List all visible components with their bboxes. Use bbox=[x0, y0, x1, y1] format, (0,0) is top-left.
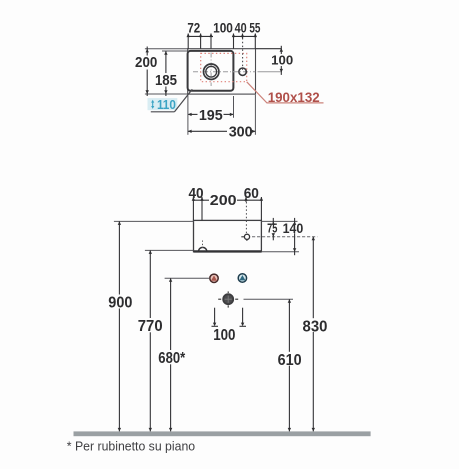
svg-text:830: 830 bbox=[303, 319, 328, 336]
faucet dotted vertical line bbox=[242, 38, 244, 71]
extension 900 bbox=[114, 220, 194, 222]
label 40 top bbox=[235, 21, 247, 36]
dimension 200 (left) bbox=[135, 47, 157, 97]
svg-text:200: 200 bbox=[135, 55, 157, 71]
dimension 680* bbox=[158, 278, 186, 431]
label 55 top bbox=[249, 21, 260, 36]
extension 75/140 top bbox=[261, 220, 297, 222]
extension 680 bbox=[165, 277, 210, 279]
top dimension line bbox=[188, 35, 255, 37]
110 note highlight box bbox=[148, 98, 178, 110]
dotted line above dome bbox=[202, 241, 204, 249]
svg-text:40: 40 bbox=[235, 21, 247, 36]
red leader 190x132 bbox=[247, 82, 324, 103]
dimension 100 (right) bbox=[271, 46, 293, 75]
extension vertical 300 right bbox=[254, 95, 256, 135]
dimension 830 bbox=[303, 237, 328, 432]
svg-text:900: 900 bbox=[108, 294, 132, 311]
dimension 195 (bottom) bbox=[188, 108, 234, 124]
label 60 front bbox=[244, 185, 259, 202]
svg-text:300: 300 bbox=[229, 125, 253, 141]
floor bar bbox=[74, 431, 371, 436]
svg-text:200: 200 bbox=[210, 193, 237, 209]
svg-text:185: 185 bbox=[155, 73, 177, 89]
svg-text:100: 100 bbox=[213, 327, 235, 344]
svg-text:100: 100 bbox=[213, 21, 233, 36]
centerline horizontal (dash-dot) bbox=[193, 71, 255, 73]
110 text bbox=[157, 97, 176, 112]
faucet hole circle bbox=[239, 68, 246, 75]
front rect bbox=[194, 220, 262, 251]
extension vertical 195 right bbox=[233, 96, 235, 118]
centerline vertical through drain bbox=[210, 53, 212, 87]
drain dome bbox=[198, 247, 207, 251]
tick 72 end bbox=[199, 33, 202, 48]
svg-text:* Per rubinetto su piano: * Per rubinetto su piano bbox=[67, 440, 195, 454]
label 100 top bbox=[213, 21, 233, 36]
tick bowl right edge bbox=[232, 33, 235, 48]
cold water supply (blue circle with triangle) bbox=[238, 274, 246, 282]
label 40 front bbox=[188, 185, 203, 202]
svg-text:100: 100 bbox=[271, 53, 293, 68]
svg-text:75: 75 bbox=[267, 220, 277, 235]
label 200 front bbox=[210, 193, 237, 209]
front tick right edge bbox=[260, 197, 263, 221]
extension vertical left (195/300) bbox=[187, 96, 189, 135]
svg-text:610: 610 bbox=[278, 352, 302, 369]
110 arrow glyph bbox=[151, 100, 154, 109]
dimension 185 (left inner) bbox=[155, 51, 177, 96]
tick at basin left edge bbox=[187, 33, 190, 48]
extension 770 bbox=[145, 249, 194, 251]
tick faucet center bbox=[241, 33, 244, 38]
dimension 770 bbox=[138, 250, 163, 431]
svg-text:72: 72 bbox=[187, 21, 200, 36]
svg-text:770: 770 bbox=[138, 318, 163, 335]
basin bowl rounded rect 195x185 bbox=[188, 51, 234, 91]
extension line bowl-top (185) bbox=[162, 50, 189, 52]
tick drain center bbox=[209, 33, 212, 48]
svg-text:110: 110 bbox=[157, 97, 176, 112]
dimension 900 bbox=[108, 221, 132, 431]
extension right top (100) bbox=[256, 48, 282, 50]
basin outer rect 300x200 bbox=[188, 49, 256, 94]
red dotted rect 190x132 bbox=[201, 53, 247, 81]
front tick faucet (dotted below) bbox=[244, 197, 247, 233]
tick basin right edge bbox=[254, 33, 257, 48]
footnote bbox=[67, 440, 195, 454]
dimension 140 bbox=[283, 218, 304, 255]
faucet cross (dashed circle) bbox=[241, 234, 249, 242]
dimension 75 bbox=[267, 218, 277, 240]
front tick 40 bbox=[200, 197, 203, 221]
extension line top-left (200) bbox=[145, 48, 189, 50]
svg-text:680*: 680* bbox=[158, 350, 186, 367]
svg-text:140: 140 bbox=[283, 220, 304, 236]
svg-text:60: 60 bbox=[244, 185, 259, 202]
dimension 610 bbox=[278, 299, 302, 431]
front bottom thick edge bbox=[194, 250, 262, 252]
front tick left edge bbox=[192, 197, 195, 221]
red label 190x132 bbox=[268, 89, 320, 105]
label 72 bbox=[187, 21, 200, 36]
extension 140 bottom bbox=[261, 251, 299, 253]
extension right at faucet height bbox=[258, 71, 281, 73]
svg-text:40: 40 bbox=[188, 185, 203, 202]
dimension 100 (between supplies) bbox=[212, 308, 247, 345]
hot water supply (red circle with triangle) bbox=[210, 274, 218, 282]
extension line bottom-left bbox=[145, 93, 188, 95]
svg-text:190x132: 190x132 bbox=[268, 89, 320, 105]
dimension 300 (bottom) bbox=[188, 125, 256, 141]
extension 610 (drain to right) bbox=[244, 298, 294, 300]
svg-text:195: 195 bbox=[199, 108, 223, 124]
drain knob (dark circle) bbox=[218, 291, 238, 307]
drain hole (two concentric circles) bbox=[204, 64, 219, 79]
dashed extension faucet to 830 bbox=[252, 236, 317, 238]
110 underline and leader bbox=[151, 89, 193, 112]
svg-text:55: 55 bbox=[249, 21, 260, 36]
front top dimension line bbox=[193, 199, 261, 201]
